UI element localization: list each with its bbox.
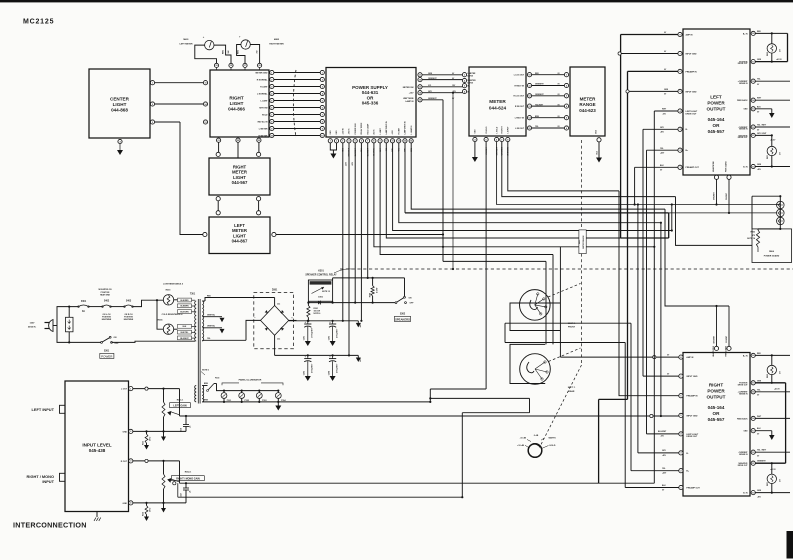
bridge bottom lead [274, 335, 276, 355]
sense circle 3 [777, 217, 785, 225]
thermistor R304 [163, 324, 173, 334]
resistor R830 circle [771, 135, 773, 146]
svg-text:FRONT: FRONT [568, 327, 576, 329]
wire lpo preamp out to bus [635, 166, 678, 168]
svg-text:HOLD: HOLD [550, 445, 556, 447]
svg-text:M401: M401 [183, 38, 189, 41]
bridge diamond [261, 306, 289, 336]
svg-text:PREAMP IN: PREAMP IN [686, 395, 698, 398]
dark bus y212.9 [404, 143, 406, 213]
dashed link wafer rear [549, 348, 581, 362]
svg-text:BLK/GRN: BLK/GRN [180, 312, 189, 314]
power switch S301 [102, 337, 111, 342]
svg-text:045-336: 045-336 [362, 101, 379, 106]
svg-text:GND: GND [123, 431, 128, 433]
svg-text:DRIVE OUT: DRIVE OUT [738, 384, 749, 386]
secondary 2 BRN top lead [202, 385, 207, 387]
svg-text:BLK/YEL: BLK/YEL [181, 332, 190, 334]
svg-text:PWR GUARD: PWR GUARD [725, 161, 728, 172]
svg-text:GND: GND [596, 129, 598, 134]
lpo right YEL [755, 80, 790, 82]
lamp P304 [275, 393, 281, 399]
svg-text:GND: GND [475, 129, 477, 134]
svg-text:PREAMP IN: PREAMP IN [686, 70, 698, 73]
rpo top pins [714, 346, 718, 350]
wire ps pin3 +102 down [342, 143, 344, 321]
svg-text:SENSE IN: SENSE IN [739, 83, 748, 85]
AC plug 120V [49, 320, 53, 332]
svg-text:044-867: 044-867 [232, 239, 248, 244]
rpo right GRN/WHT bold [755, 462, 785, 464]
svg-text:POWER: POWER [707, 388, 725, 393]
wires meter to meter range [532, 74, 565, 76]
rpo right pins [751, 353, 755, 357]
meter M402 RIGHT METER [241, 40, 250, 49]
front wafer rect [510, 303, 560, 331]
bus y204.5 meter L HOLD to sense column [497, 142, 781, 205]
svg-text:R308: R308 [370, 293, 372, 297]
svg-text:R HOLD: R HOLD [486, 126, 488, 134]
svg-text:GRN: GRN [757, 164, 762, 166]
fuse F303 diagonal [208, 384, 215, 391]
svg-text:RAT AC IN: RAT AC IN [258, 120, 268, 123]
input level right pins [129, 387, 133, 391]
svg-text:500: 500 [780, 371, 782, 374]
svg-text:MTR SW: MTR SW [259, 107, 267, 109]
svg-text:POWER: POWER [707, 100, 725, 105]
svg-text:ORN/WHT: ORN/WHT [428, 78, 437, 80]
svg-text:044-623: 044-623 [579, 108, 596, 113]
wires right light to power supply [274, 72, 320, 74]
svg-text:10000µF/80V: 10000µF/80V [312, 327, 314, 338]
svg-text:LIGHT: LIGHT [113, 102, 127, 107]
block POWER SUPPLY 044-631 OR 045-336 [326, 68, 416, 138]
dashed link shaft to knob [541, 365, 582, 445]
svg-text:GRN/WHT: GRN/WHT [714, 192, 716, 200]
vertical x631 to rpo b+ [630, 323, 632, 471]
lpo right wiring RED [755, 32, 787, 34]
svg-text:NOTE 12: NOTE 12 [322, 291, 330, 293]
svg-text:METER: METER [489, 99, 506, 104]
resistor R830R circle [771, 463, 773, 474]
wires thermistors to tap boxes [174, 299, 178, 301]
wire lpo b- to rpo input gnd [643, 128, 678, 130]
center light pins [150, 81, 154, 85]
svg-text:METER RANGE: METER RANGE [582, 235, 585, 249]
svg-text:METER GND: METER GND [256, 72, 269, 74]
svg-text:B+: B+ [468, 86, 470, 88]
right meter light pins [216, 152, 220, 156]
resistor R354 to ground [146, 503, 148, 506]
svg-text:180: 180 [228, 51, 230, 54]
svg-text:PWR GUARD: PWR GUARD [725, 345, 728, 356]
svg-text:GRN/WHT: GRN/WHT [535, 84, 544, 86]
bold feedback wire lpo [755, 61, 787, 63]
svg-text:SPEAKERS: SPEAKERS [395, 317, 410, 321]
svg-text:RELAY DRIVE: RELAY DRIVE [360, 122, 363, 135]
svg-text:BLK/WHT: BLK/WHT [180, 338, 189, 340]
svg-text:390 2: 390 2 [150, 437, 152, 441]
svg-text:POWER GUARD: POWER GUARD [764, 255, 780, 258]
wire meter L INPUT to rpo preamp in [508, 142, 619, 191]
svg-text:R DB OUT: R DB OUT [515, 106, 525, 108]
svg-text:HEATSINK: HEATSINK [124, 318, 134, 321]
pot R351 LEFT GAIN [162, 402, 165, 417]
vertical x619 to rpo preamp in [619, 191, 679, 396]
svg-text:L DB OUT: L DB OUT [515, 128, 525, 130]
svg-text:DRIVE: DRIVE [468, 82, 474, 84]
block RIGHT LIGHT 044-866 [210, 70, 269, 137]
switch wafer SECT1 REAR [520, 354, 551, 385]
svg-text:B+ IN: B+ IN [743, 33, 748, 35]
svg-text:390 2: 390 2 [150, 508, 152, 512]
svg-text:R803: R803 [750, 232, 755, 234]
bridge left lead [246, 320, 261, 340]
svg-text:GND: GND [336, 130, 338, 135]
wire ps pin5 power gnd down [354, 143, 356, 303]
wire switch to transformer primary [112, 341, 196, 342]
wire lpo b+ to rpo limit [647, 149, 678, 151]
resistor R803 [758, 228, 780, 230]
switch S302 SPEAKERS [396, 297, 405, 302]
resistor R353 to ground [146, 431, 148, 434]
svg-text:+41.5V: +41.5V [776, 58, 783, 61]
lamp P303 [256, 393, 262, 399]
svg-text:120V: 120V [30, 323, 35, 325]
svg-text:HEADPHONE: HEADPHONE [712, 345, 715, 357]
power guard box R804 [752, 229, 792, 263]
gnd line R [133, 502, 186, 504]
svg-text:R351-1: R351-1 [177, 399, 184, 401]
svg-text:WATTS/DB: WATTS/DB [403, 97, 414, 100]
rpo right YEL [755, 391, 790, 393]
svg-text:B- IN: B- IN [743, 166, 748, 168]
svg-text:INPUT: INPUT [42, 479, 54, 484]
svg-text:K301: K301 [318, 270, 324, 272]
dark vertical x668.7 [668, 213, 670, 238]
svg-text:HOLD: HOLD [262, 114, 268, 116]
svg-text:SPEAKER CONTROL RELAY: SPEAKER CONTROL RELAY [305, 274, 337, 277]
svg-text:INPUT LEVEL: INPUT LEVEL [82, 443, 112, 448]
svg-text:R OUT: R OUT [121, 461, 128, 463]
dashed shaft meter range switch [581, 140, 583, 230]
svg-text:R NORMAL: R NORMAL [257, 78, 269, 81]
svg-text:R LIMIT: R LIMIT [398, 127, 400, 134]
svg-text:+102 IN: +102 IN [342, 127, 344, 134]
lamp P301 [221, 393, 227, 399]
svg-text:045-164: 045-164 [708, 405, 725, 410]
svg-text:B+ IN: B+ IN [743, 355, 748, 357]
vertical x654.3 limit drive to y483 [653, 111, 655, 483]
svg-text:4 10W: 4 10W [376, 288, 379, 293]
svg-text:C318: C318 [181, 428, 183, 432]
lpo right GRY/WHT [755, 134, 772, 136]
svg-text:GRN: GRN [664, 89, 669, 91]
svg-text:L METER: L METER [259, 128, 268, 130]
wire x443 y261.4 to wafer [443, 260, 546, 262]
svg-text:50/60 Hz: 50/60 Hz [28, 327, 36, 329]
wire lpo input gnd 2 hook [629, 90, 678, 92]
wire lpo limit light drive [654, 110, 678, 112]
ground below center light [119, 144, 121, 150]
svg-text:DRIVE: DRIVE [468, 76, 474, 78]
svg-text:INPUT GND: INPUT GND [686, 53, 698, 55]
dark vertical x627.5 lpo preamp in [627, 71, 629, 399]
lpo bottom pin wires [716, 179, 718, 204]
left input jack [60, 405, 66, 413]
svg-text:R352-1: R352-1 [185, 472, 192, 474]
vertical x637.9 bus to rpo b- [637, 205, 639, 453]
svg-text:PANEL ILLUMINATOR: PANEL ILLUMINATOR [239, 379, 262, 382]
svg-text:INPUT GND: INPUT GND [686, 91, 698, 93]
svg-text:YEL / WHT: YEL / WHT [757, 125, 767, 127]
wire S403 to thermistor R303 [133, 300, 164, 306]
svg-text:4700µF/80V: 4700µF/80V [335, 328, 338, 338]
capacitor C301 [307, 321, 309, 324]
wire R OUT [133, 460, 180, 462]
negative rail -62V [275, 354, 359, 356]
line filter [66, 317, 74, 332]
svg-text:045-557: 045-557 [708, 417, 725, 422]
svg-text:BRN: BRN [204, 400, 209, 402]
svg-text:4700µF/80V: 4700µF/80V [335, 363, 338, 373]
svg-text:P302: P302 [245, 400, 249, 402]
right light right pins [270, 70, 274, 74]
dark vertical x598.6 [598, 399, 600, 483]
relay K301 box [308, 280, 332, 301]
svg-text:BRN: BRN [535, 116, 540, 118]
lpo bottom pins [714, 175, 718, 179]
rpo top pin wires [716, 306, 718, 346]
resistor R301 below relay [307, 303, 309, 306]
svg-text:R INPUT: R INPUT [502, 125, 504, 133]
svg-text:LEFT: LEFT [710, 95, 722, 100]
svg-text:AMP IN: AMP IN [686, 33, 694, 36]
svg-text:F303: F303 [215, 377, 219, 379]
capacitor C303 [307, 355, 309, 358]
svg-text:B- IN: B- IN [743, 493, 748, 495]
svg-text:.25: .25 [190, 426, 192, 428]
wafer lower wires [430, 397, 529, 399]
wire meter R HOLD long vertical x486 [485, 142, 487, 389]
svg-text:M402: M402 [274, 38, 280, 41]
thermal switch S403 [125, 305, 133, 307]
svg-text:R353: R353 [143, 441, 145, 445]
power supply right pins [418, 73, 422, 77]
block RIGHT METER LIGHT 044-567 [209, 158, 270, 195]
svg-text:HOLD LAMP: HOLD LAMP [366, 123, 369, 134]
svg-text:BLK/BRN: BLK/BRN [180, 306, 189, 308]
dark jog y399.4 [599, 398, 628, 400]
svg-text:GND: GND [744, 431, 749, 433]
sense circle 1 [777, 201, 785, 209]
wire ps pin7 y254.5 [380, 143, 553, 255]
svg-text:-41.5V: -41.5V [770, 139, 776, 142]
svg-text:L LOG OUT: L LOG OUT [514, 75, 525, 77]
dark vertical x620.6 [620, 35, 622, 239]
gnd arrow below pot R351 [163, 431, 165, 436]
wire ps pin9 y230.5 [393, 143, 672, 231]
wire ps pin6 y246.8 [374, 143, 654, 247]
wire ps pin4 -102 down [348, 143, 350, 356]
svg-text:+41.5V: +41.5V [774, 388, 781, 391]
svg-text:R METER: R METER [259, 135, 269, 137]
wires meter M402 to pins [237, 45, 245, 64]
cap C320 wiper to gnd [185, 483, 187, 488]
svg-text:YEL / WHT: YEL / WHT [757, 450, 767, 452]
right light left pins [203, 81, 207, 85]
wire branch to R304 [157, 300, 163, 329]
svg-text:GRN/YEL: GRN/YEL [207, 314, 216, 316]
wires right light to right meter light [218, 142, 220, 152]
wire GRN/WHT down at x443 [442, 100, 444, 262]
svg-text:VIO/WHT: VIO/WHT [726, 193, 728, 200]
lpo right WHT [755, 99, 790, 101]
bold feedback vertical rpo [785, 383, 787, 463]
svg-text:R LIMIT: R LIMIT [260, 86, 268, 88]
resistor R829 circle [771, 33, 773, 43]
svg-text:FEED BACK: FEED BACK [737, 99, 748, 102]
svg-text:GND: GND [123, 503, 128, 505]
wire y342.5 to rpo preamp out [505, 342, 625, 344]
svg-text:HEADPHONE: HEADPHONE [712, 160, 715, 172]
lpo right GRN bottom [755, 166, 790, 168]
svg-text:GRN: GRN [757, 59, 762, 61]
meter bottom pins [473, 137, 477, 141]
svg-text:RIGHT METER: RIGHT METER [269, 44, 284, 46]
rear wafer rect [510, 344, 545, 383]
wafer feed wires [545, 261, 547, 344]
svg-text:4700µF/80V: 4700µF/80V [311, 363, 314, 373]
svg-text:B-: B- [686, 129, 688, 131]
lpo right pins [751, 31, 755, 35]
svg-text:L INPUT: L INPUT [508, 126, 510, 134]
svg-text:045-164: 045-164 [708, 117, 725, 122]
bridge rectifier D301 dashed box [254, 292, 294, 348]
wire lpo amp in dark [621, 34, 678, 36]
svg-text:L LIMIT: L LIMIT [261, 100, 269, 102]
sense circle 2 [777, 209, 785, 217]
svg-text:500: 500 [780, 152, 782, 155]
rpo right GRN bottom [755, 492, 790, 494]
svg-text:VIO/WHT: VIO/WHT [726, 336, 728, 343]
wire ps pin8 y238 [386, 143, 620, 238]
wire relay drive to switch rail [367, 277, 369, 279]
svg-text:-10 dB: -10 dB [520, 438, 527, 440]
cap C318 wiper to gnd [185, 416, 187, 425]
svg-text:DRIVE OUT: DRIVE OUT [738, 465, 749, 467]
dark jog y238 [621, 237, 669, 239]
pot R352 RIGHT GAIN [162, 474, 165, 489]
svg-text:SECT. 1: SECT. 1 [568, 387, 576, 389]
vertical x560.4 to rpo amp in line [559, 247, 561, 357]
vertical x660.9 [660, 223, 662, 416]
svg-text:L RECT IN: L RECT IN [515, 118, 525, 120]
svg-text:+10 dB: +10 dB [517, 445, 524, 447]
svg-text:DRIVE OUT: DRIVE OUT [686, 113, 698, 115]
block METER RANGE 044-623 [570, 67, 605, 136]
svg-text:L LIMIT: L LIMIT [380, 127, 382, 134]
svg-text:F301: F301 [81, 301, 87, 303]
wires from plug [53, 325, 57, 327]
svg-text:P303: P303 [262, 400, 266, 402]
wire lpo preamp in [628, 70, 678, 72]
svg-text:DRIVE OUT: DRIVE OUT [738, 63, 749, 65]
svg-text:METER SW: METER SW [403, 87, 414, 89]
svg-text:OR: OR [713, 123, 721, 128]
svg-text:C303: C303 [304, 371, 306, 375]
svg-text:RIGHT: RIGHT [229, 96, 243, 101]
relay note12 arrow [312, 287, 325, 294]
svg-text:R830: R830 [767, 155, 769, 159]
bridge right lead [289, 319, 297, 321]
rpo right WHT [755, 417, 790, 419]
cable marker dashed [293, 70, 296, 137]
vertical x675.5 to power guard box [676, 197, 753, 246]
svg-text:044-624: 044-624 [489, 106, 507, 111]
resistor R829R circle [771, 355, 773, 365]
thermal switch S402 [103, 305, 111, 307]
svg-text:R829: R829 [767, 52, 769, 56]
block RIGHT POWER OUTPUT 045-164 OR 045-557 [683, 353, 750, 497]
svg-text:S301: S301 [104, 351, 110, 353]
wire y483.2 long [180, 482, 655, 484]
vertical x665 to rpo top pin bus [665, 209, 729, 306]
wire ps pin 361 down [360, 143, 362, 321]
svg-text:HEAT SINK: HEAT SINK [100, 293, 111, 296]
block CENTER LIGHT 044-868 [89, 69, 150, 138]
svg-text:HEATSINK: HEATSINK [102, 318, 112, 321]
secondary ORN/YEL tap [202, 327, 222, 329]
svg-text:GRN/WHT: GRN/WHT [714, 336, 716, 344]
dashed mechanical link horizontal [340, 268, 793, 270]
svg-text:LOW RESISTANCE 4: LOW RESISTANCE 4 [163, 283, 184, 286]
rpo left pins [679, 355, 683, 359]
svg-text:L LAMP IN: L LAMP IN [410, 125, 413, 135]
svg-text:S403: S403 [126, 299, 132, 302]
svg-text:INPUT GND: INPUT GND [686, 376, 698, 378]
positive rail +62V [289, 320, 359, 322]
svg-text:L HOLD: L HOLD [496, 126, 498, 133]
svg-text:T301: T301 [190, 294, 196, 296]
svg-text:SENSE IN: SENSE IN [739, 454, 748, 456]
wire L OUT corner to wiper [179, 389, 181, 415]
wire left meter light right pin to bundle [276, 234, 443, 236]
meter range left pins [564, 73, 568, 77]
wire ps pin14 y209.1 [411, 143, 665, 209]
page top border bar [0, 0, 793, 2]
svg-text:PREAMP OUT: PREAMP OUT [686, 486, 700, 489]
svg-text:OUTPUT: OUTPUT [707, 394, 726, 399]
vertical x625.2 to rpo preamp out [624, 343, 626, 488]
svg-text:D301: D301 [272, 290, 278, 292]
svg-text:RIGHT: RIGHT [709, 383, 723, 388]
resistor R308 [371, 286, 374, 296]
secondary YEL lead [202, 339, 246, 341]
wire rpo amp in long [560, 356, 679, 358]
wires meter M401 to pins [195, 45, 217, 63]
switch wafer SECT1 FRONT [520, 290, 551, 321]
block bottom chassis ground [96, 512, 98, 518]
wires power supply to meter [422, 74, 462, 76]
svg-text:+15V: +15V [409, 93, 414, 95]
svg-text:LEFT INPUT: LEFT INPUT [32, 407, 55, 412]
sense column [779, 196, 781, 229]
svg-text:750: 750 [257, 51, 259, 54]
svg-text:ORN/WHT: ORN/WHT [535, 94, 544, 96]
svg-text:500: 500 [780, 479, 782, 482]
meter range bottom pin GND [597, 138, 601, 142]
